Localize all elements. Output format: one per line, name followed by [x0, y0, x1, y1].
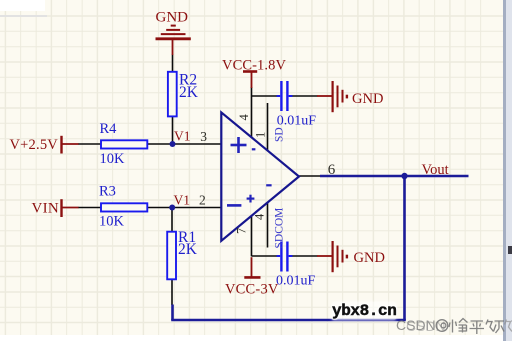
svg-text:VCC-3V: VCC-3V [225, 282, 279, 298]
svg-text:Vout: Vout [422, 162, 449, 178]
svg-text:V1: V1 [174, 193, 191, 208]
svg-text:GND: GND [156, 10, 189, 26]
svg-text:V1: V1 [174, 129, 191, 144]
svg-text:2K: 2K [179, 84, 199, 101]
svg-text:1: 1 [253, 132, 267, 138]
svg-text:10K: 10K [100, 151, 126, 167]
svg-text:VCC-1.8V: VCC-1.8V [222, 58, 286, 74]
svg-text:VIN: VIN [32, 201, 60, 217]
svg-text:4: 4 [237, 114, 251, 121]
svg-text:4: 4 [253, 213, 267, 220]
svg-text:2: 2 [199, 192, 206, 207]
svg-text:GND: GND [354, 250, 385, 266]
svg-text:7: 7 [234, 228, 248, 234]
svg-text:10K: 10K [99, 213, 125, 229]
svg-text:GND: GND [352, 91, 383, 107]
svg-text:0.01uF: 0.01uF [276, 274, 316, 289]
svg-text:3: 3 [200, 129, 207, 144]
svg-text:V+2.5V: V+2.5V [10, 137, 59, 153]
svg-text:SD: SD [274, 127, 286, 142]
svg-text:0.01uF: 0.01uF [277, 114, 317, 129]
svg-text:2K: 2K [178, 241, 198, 258]
svg-text:R3: R3 [99, 184, 116, 200]
svg-text:R4: R4 [100, 121, 118, 137]
svg-text:6: 6 [328, 162, 336, 178]
svg-text:SDCOM: SDCOM [274, 208, 286, 249]
